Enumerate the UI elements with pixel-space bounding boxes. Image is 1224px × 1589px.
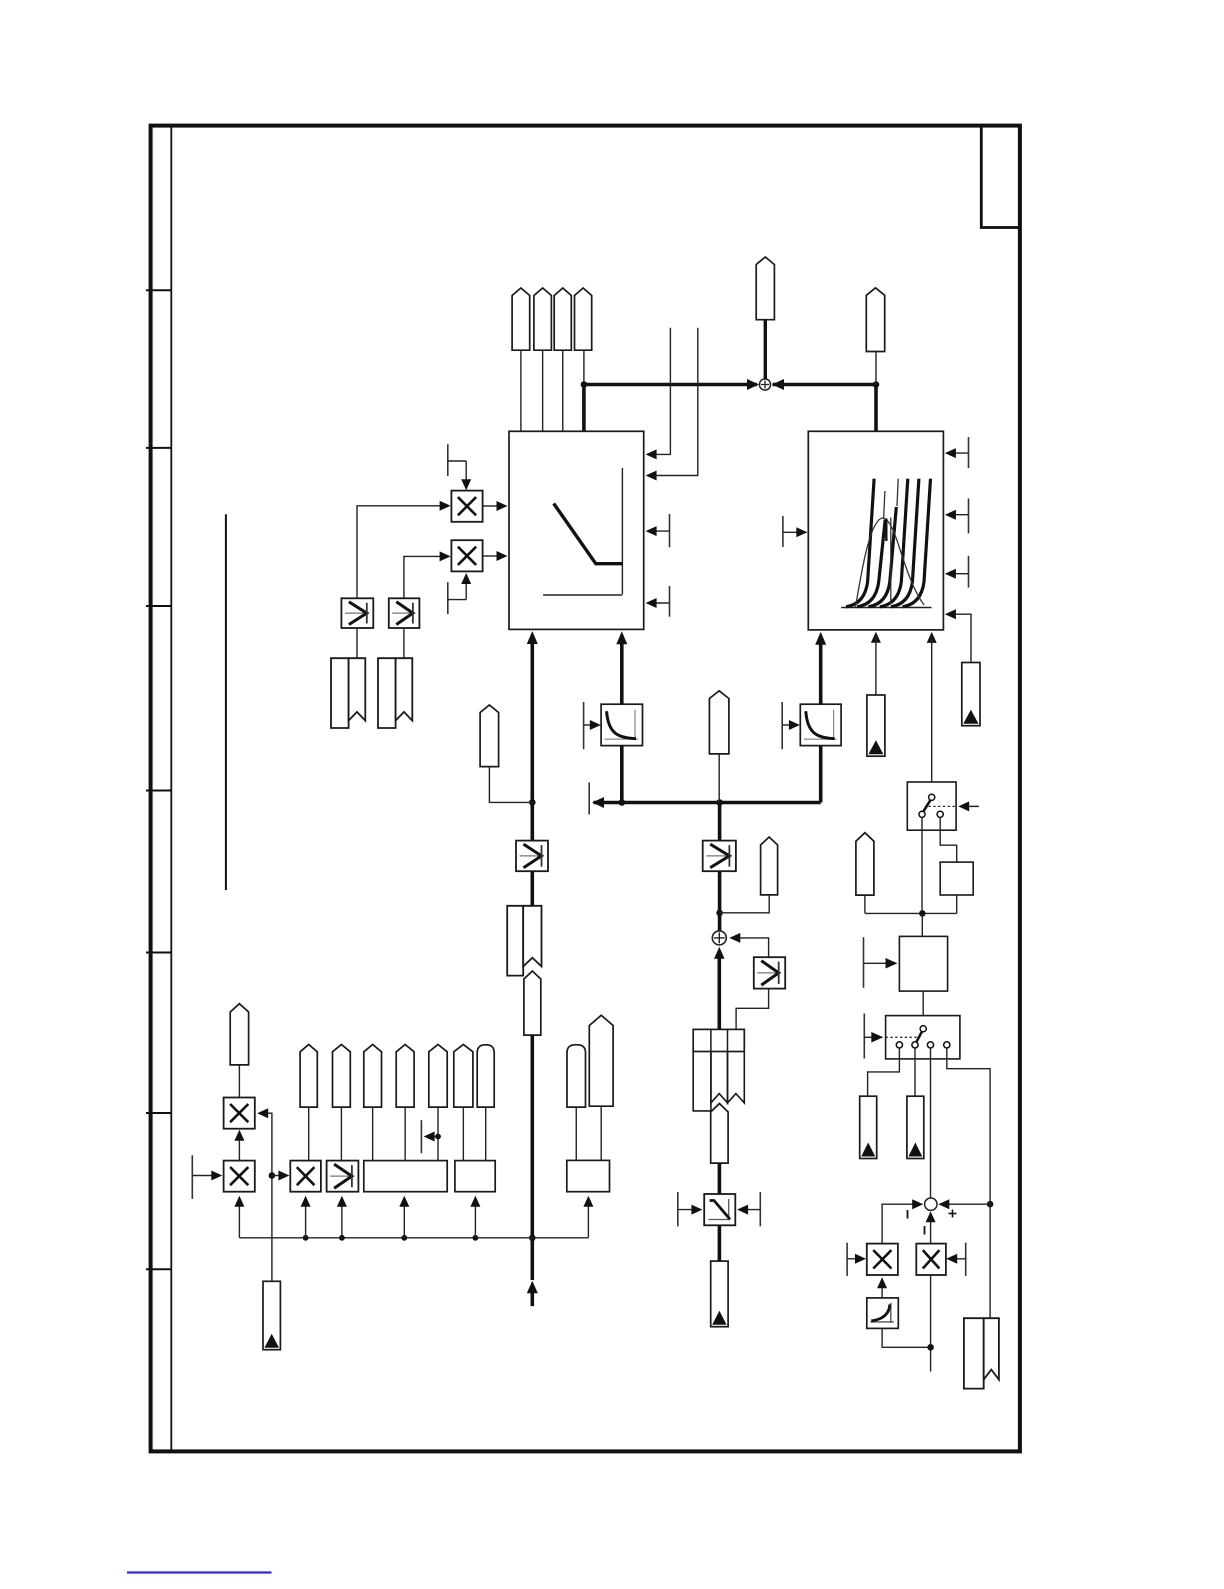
wire bus to M2	[238, 1198, 240, 1238]
wire ref line R1	[648, 328, 670, 455]
wire node N2 to SUM1 (thick)	[773, 383, 876, 387]
minus label (SUM3 bottom)	[924, 1226, 926, 1235]
wire L2 to SUM2 (thick)	[718, 871, 722, 931]
wire K7 to N3	[489, 767, 532, 803]
tap stub P18 (off K18 wire)	[420, 1120, 422, 1153]
title block (top-right)	[981, 126, 1020, 228]
wire feed to M1 right	[259, 1113, 272, 1281]
wire M2 to M1	[238, 1133, 240, 1161]
wire K21 to FB5	[575, 1107, 577, 1160]
control stub SW2 (left)	[863, 1014, 865, 1059]
node N5 junction	[619, 799, 626, 806]
node N15	[401, 1235, 407, 1241]
multiplier X2	[451, 540, 482, 571]
limiter L1	[516, 841, 548, 872]
wire bus to FB3	[403, 1198, 405, 1238]
wire LA to sheet-ref BMA	[356, 628, 358, 658]
flag K14	[300, 1045, 317, 1108]
wire N7 to K10	[720, 895, 770, 913]
parameter stub P3 (FB1 right upper)	[669, 514, 671, 547]
wire LB to sheet-ref BMB	[403, 628, 405, 658]
wire X2 out to FB1	[483, 555, 499, 557]
wire K2 to FB1	[542, 350, 544, 431]
wire XM2 bottom feed	[930, 1275, 932, 1372]
flag K9	[709, 691, 729, 754]
node N4 junction (bus crossing)	[529, 1235, 536, 1242]
node N11 junction	[269, 1172, 276, 1179]
wire RB to connector CN3 (thick)	[718, 1225, 722, 1261]
wire DA bottom to bus T1 (thick)	[620, 746, 624, 803]
flag K18	[429, 1045, 447, 1108]
ramp limiter RB	[704, 1194, 735, 1225]
flag K19	[454, 1045, 473, 1108]
flag K17	[396, 1045, 414, 1108]
function block FB2 (firing characteristics)	[808, 431, 943, 630]
flag K5 (SUM1 output)	[756, 257, 774, 320]
node N16	[473, 1235, 479, 1241]
wire N9 to SUM3	[940, 1203, 990, 1205]
parameter stub P6 (FB2 right 1)	[968, 437, 970, 468]
node N7 junction	[716, 910, 723, 917]
summer SUM1	[759, 379, 770, 390]
bottom bus wire	[239, 1237, 588, 1239]
multiplier M2	[224, 1161, 255, 1192]
multiplier M1	[224, 1098, 255, 1129]
parameter stub P14 (B4 left)	[863, 937, 865, 988]
wire K8 down to bus (thick)	[530, 1035, 534, 1280]
wire SUM1 to K5 (thick)	[764, 320, 767, 379]
connector CN4 (output down)	[860, 1096, 877, 1158]
wire bus to FB4	[474, 1198, 476, 1238]
wire K20 to FB4	[485, 1107, 487, 1161]
wire K1 to FB1	[520, 350, 522, 431]
wire limiter LB to X2	[404, 556, 441, 598]
parameter stub P9 (DA left)	[583, 702, 585, 749]
wire K12 to tie	[864, 895, 866, 913]
parameter stub P2 (X2 bottom)	[447, 582, 449, 614]
wire SW2 c1 to connector CN4	[868, 1048, 900, 1096]
wire FB2 bottom input 3	[927, 632, 937, 643]
wire K17 to FB3	[404, 1107, 406, 1161]
wire SW1 left contact down to N8	[921, 817, 923, 913]
wire bus to L3	[341, 1198, 343, 1238]
wire SW2 c2 to connector CN5	[914, 1048, 916, 1096]
wire limiter LA to X1	[357, 506, 441, 599]
wire N1 to summer SUM1 (thick)	[584, 383, 757, 387]
node N1 junction	[581, 381, 588, 388]
wire K11 to RB (thick)	[718, 1163, 722, 1194]
divider box DB (1/x)	[800, 704, 841, 745]
parameter stub P16 (XM2 right)	[965, 1243, 967, 1276]
node N9 junction	[987, 1201, 994, 1208]
wire limiter LR to SUM2	[731, 938, 769, 957]
wire K4 to FB1 (thick)	[582, 385, 586, 432]
wire SW2 c4 to N9	[947, 1048, 990, 1204]
node N13	[303, 1235, 309, 1241]
flag K11	[711, 1104, 728, 1164]
limiter LA	[341, 598, 373, 628]
flag K16	[364, 1045, 382, 1108]
multiplier XM1	[867, 1244, 898, 1275]
control stub SW1 (right)	[961, 805, 979, 807]
connector flag K2 (to FB1)	[534, 288, 552, 350]
parameter stub P15 (XM1 left)	[846, 1243, 848, 1276]
multiplier XM2	[916, 1244, 946, 1275]
limiter L2	[703, 841, 736, 872]
wire X1 out to FB1	[483, 505, 499, 507]
flag K7	[480, 705, 499, 767]
footer link underline	[127, 1571, 272, 1573]
node N2 junction	[873, 381, 880, 388]
limiter LB	[389, 598, 420, 628]
wire K18 to FB3	[437, 1107, 439, 1161]
wire N8 to box B4	[921, 913, 923, 936]
flag K13 (tall, M1 output)	[230, 1004, 248, 1065]
vertical rule line	[225, 514, 227, 890]
multiplier X1	[451, 491, 482, 522]
node N10 junction	[927, 1344, 934, 1351]
connector CN3 (output down)	[711, 1261, 728, 1327]
flag K8 (return from sheet)	[524, 971, 541, 1035]
sheet reference BMA	[331, 658, 349, 728]
function box B4	[899, 936, 947, 991]
connector flag K3 (to FB1)	[554, 288, 571, 350]
multiplier M3	[290, 1161, 321, 1192]
parameter stub P5 (FB2 left)	[782, 516, 784, 547]
wire FB1 bottom input (thick, x=532)	[527, 631, 538, 644]
summer SUM3	[925, 1198, 937, 1210]
node N8 junction	[919, 910, 926, 917]
wire ref line R2	[648, 328, 698, 476]
wire K6 to N2	[875, 352, 877, 385]
function box FB5	[567, 1160, 610, 1191]
minus label (SUM3 left)	[907, 1210, 909, 1219]
flag K21 (rounded)	[567, 1045, 586, 1107]
connector CN1 (input from below)	[962, 663, 980, 726]
wire connector CN1 to FB2 right 4	[946, 614, 971, 662]
wire K14 to M3	[308, 1107, 310, 1161]
wire K22 to FB5	[600, 1106, 602, 1160]
function box FB4	[455, 1161, 495, 1192]
wire B4 to SW2	[922, 991, 924, 1028]
flag K12	[856, 833, 874, 895]
wire N6 to L2 (thick)	[718, 803, 722, 841]
flag K10	[761, 837, 778, 895]
wire bus to FB5	[587, 1198, 589, 1238]
wire DB out to FB2 bottom (thick)	[815, 632, 826, 645]
summer SUM2	[712, 931, 726, 945]
flag K15	[333, 1045, 351, 1108]
wire T1 up to DB (thick)	[819, 746, 823, 803]
sheet reference BMB	[378, 658, 396, 728]
wire SW2 c3 to SUM3	[930, 1048, 932, 1198]
wire N11 to M3	[272, 1175, 288, 1177]
flag K20 (rounded)	[477, 1045, 494, 1107]
thick tie line T1	[594, 801, 821, 805]
plus label (SUM3 right)	[949, 1213, 957, 1215]
limiter LR	[754, 957, 785, 988]
sheet reference BM1 (break)	[507, 906, 523, 976]
wire XM1 to SUM3	[882, 1204, 921, 1243]
connector flag K4 (to FB1)	[575, 288, 592, 350]
wire bus to M3	[305, 1198, 307, 1238]
switch SW2	[886, 1016, 960, 1059]
wire SB1 down to tie	[956, 895, 958, 913]
flag K22 (tall)	[589, 1015, 613, 1106]
function block FB1 (limit characteristic)	[509, 431, 644, 629]
node N14	[339, 1235, 345, 1241]
exp function box EB1	[867, 1298, 899, 1329]
wire L1 to sheet-ref BM1 (thick)	[530, 871, 534, 906]
function box FB3	[364, 1161, 447, 1192]
wire CN2 to FB2 bottom	[871, 632, 881, 643]
wire EB1 bottom to N10	[882, 1328, 931, 1347]
parameter bar P10 (T1 left end)	[588, 783, 590, 815]
continuation arrow A1 (from below, thick)	[527, 1281, 538, 1294]
parameter stub P8 (FB2 right 3)	[968, 556, 970, 588]
sheet reference TB (triple)	[693, 1029, 744, 1051]
parameter stub P11 (DB left)	[781, 702, 783, 749]
wire K3 to FB1	[562, 350, 564, 431]
limiter L3	[327, 1161, 359, 1192]
connector CN5 (output down)	[907, 1096, 924, 1158]
parameter stub P13 (RB right)	[759, 1192, 761, 1226]
wire XM2 to SUM3	[930, 1213, 932, 1244]
wire K9 to N6	[718, 754, 720, 803]
drawing frame border	[151, 126, 1020, 1452]
wire K16 to FB3	[372, 1107, 374, 1161]
wire K19 to FB4	[462, 1107, 464, 1161]
wire EB1 to XM1	[881, 1279, 883, 1298]
wire K15 to L3	[340, 1107, 342, 1161]
connector CN2 (input from below)	[867, 695, 885, 756]
flag K6	[866, 288, 884, 352]
node N6 junction	[716, 799, 723, 806]
divider box DA (1/x)	[601, 704, 642, 745]
wire N9 to sheet-ref BMC	[989, 1204, 991, 1318]
wire N2 to FB2 (thick)	[874, 385, 878, 432]
wire K4 upper (thin)	[583, 350, 585, 384]
node N12 junction	[435, 1134, 441, 1140]
parameter stub P12 (RB left)	[677, 1192, 679, 1226]
wire TB to SUM2 (thick, up arrow)	[714, 947, 725, 959]
connector CN6 (output down)	[263, 1281, 280, 1349]
parameter stub P1 (X1 top)	[447, 444, 449, 476]
sheet reference BMC	[964, 1318, 984, 1388]
connector flag K1 (to FB1)	[512, 288, 530, 350]
wire SW1 right contact to box SB1	[940, 817, 957, 862]
node N3 junction	[529, 799, 536, 806]
tie line T2	[865, 912, 957, 914]
parameter stub P17 (M2 left)	[191, 1155, 193, 1199]
wire LR bottom to TB right column	[736, 989, 769, 1030]
wire M1 to K13	[238, 1065, 240, 1098]
margin tick rows	[146, 290, 171, 1269]
parameter stub P7 (FB2 right 2)	[968, 498, 970, 533]
parameter stub P4 (FB1 right lower)	[669, 586, 671, 617]
switch SW1	[907, 782, 956, 830]
box SB1	[940, 862, 973, 895]
left margin column line	[170, 124, 172, 1453]
wire DA out to FB1 bottom (thick)	[616, 631, 627, 644]
